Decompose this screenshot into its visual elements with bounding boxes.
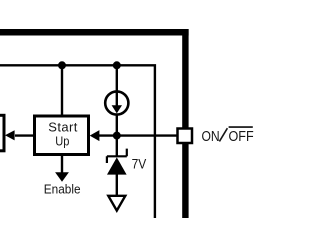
svg-text:OFF: OFF [229, 127, 254, 144]
pin square ON/OFF [178, 129, 193, 144]
wire node to zener cathode [116, 135, 118, 156]
slash of ON/OFF [219, 128, 227, 141]
wire Start Up bottom to enable arrow [61, 155, 63, 174]
arrowhead into Start Up right side [90, 130, 100, 141]
wire to current source [116, 65, 118, 91]
text Up [55, 134, 69, 149]
wire to Start Up top [61, 65, 63, 115]
wire node to ON/OFF pin [97, 134, 177, 136]
text ON [202, 128, 220, 144]
left block (partial, cut off) [0, 115, 4, 151]
Start Up block U1 [35, 116, 89, 155]
overline over OFF [229, 126, 253, 128]
svg-text:7V: 7V [132, 156, 147, 172]
text Enable [44, 182, 81, 197]
svg-text:Up: Up [55, 134, 69, 149]
svg-text:Start: Start [48, 119, 77, 134]
IC boundary right bar [182, 29, 188, 218]
zener diode D1 7V [107, 149, 127, 175]
ground symbol (open triangle) [108, 196, 125, 211]
node junction dot at zener node [113, 132, 121, 140]
wire Start Up left to left block [15, 134, 34, 136]
arrowhead Enable output [55, 172, 69, 182]
text 7V [132, 156, 147, 172]
node junction dot at Start Up branch [58, 61, 66, 69]
wire Vin rail with corner down [0, 65, 155, 218]
text OFF [229, 127, 254, 144]
wire zener to ground [116, 174, 118, 195]
IC boundary top bar [0, 29, 189, 36]
arrowhead into left block [5, 130, 15, 140]
wire current source to node [116, 115, 118, 135]
node junction dot at current source branch [113, 61, 121, 69]
svg-text:ON: ON [202, 128, 220, 144]
current source I1 [105, 91, 128, 115]
svg-text:Enable: Enable [44, 182, 81, 197]
